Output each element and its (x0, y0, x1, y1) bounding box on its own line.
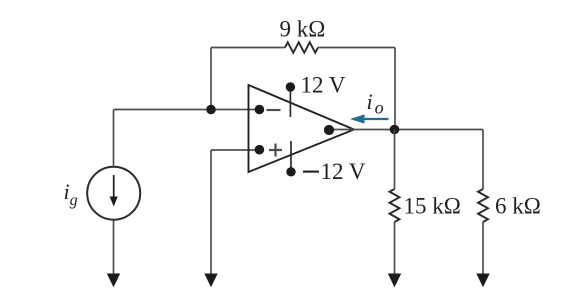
current arrow io (blue) (350, 114, 389, 123)
svg-text:12 V: 12 V (301, 72, 346, 97)
supply +12V pin (286, 82, 295, 117)
node output junction (390, 125, 400, 135)
svg-text:12 V: 12 V (321, 159, 366, 184)
wire plus branch vertical (210, 150, 212, 275)
wire 6k bottom (482, 222, 484, 275)
supply -12V pin (286, 141, 295, 177)
op-amp minus input dot (255, 105, 265, 115)
wire below current source (113, 220, 115, 275)
wire plus-input horizontal (211, 149, 259, 151)
svg-text:15 kΩ: 15 kΩ (404, 194, 461, 219)
wire top rail right (318, 47, 395, 49)
label -12 V (303, 171, 319, 173)
wire left vertical to current source (113, 110, 115, 168)
op-amp minus sign (267, 109, 281, 111)
wire minus-input horizontal (114, 109, 260, 111)
svg-text:6 kΩ: 6 kΩ (495, 194, 541, 219)
resistor R3 6k zigzag (478, 189, 488, 222)
wire feedback left vertical (210, 48, 212, 110)
op-amp U1 triangle (249, 85, 355, 172)
wire feedback right vertical (394, 48, 396, 130)
resistor R1 9k zigzag (285, 42, 318, 53)
wire 15k bottom (394, 222, 396, 275)
op-amp plus input dot (255, 145, 265, 155)
wire 6k vertical top (482, 130, 484, 190)
op-amp output dot (324, 125, 334, 135)
resistor R2 15k zigzag (390, 189, 400, 222)
wire 15k top (394, 130, 396, 190)
current source ig (87, 167, 140, 220)
ground arrow 1 (107, 274, 120, 288)
node junction at minus input (206, 105, 216, 115)
svg-text:9 kΩ: 9 kΩ (280, 17, 326, 42)
ground arrow 4 (476, 274, 489, 288)
wire top rail left (211, 47, 285, 49)
ground arrow 2 (204, 274, 217, 288)
ground arrow 3 (388, 274, 401, 288)
op-amp plus sign (269, 144, 282, 157)
wire output rail (330, 129, 483, 131)
